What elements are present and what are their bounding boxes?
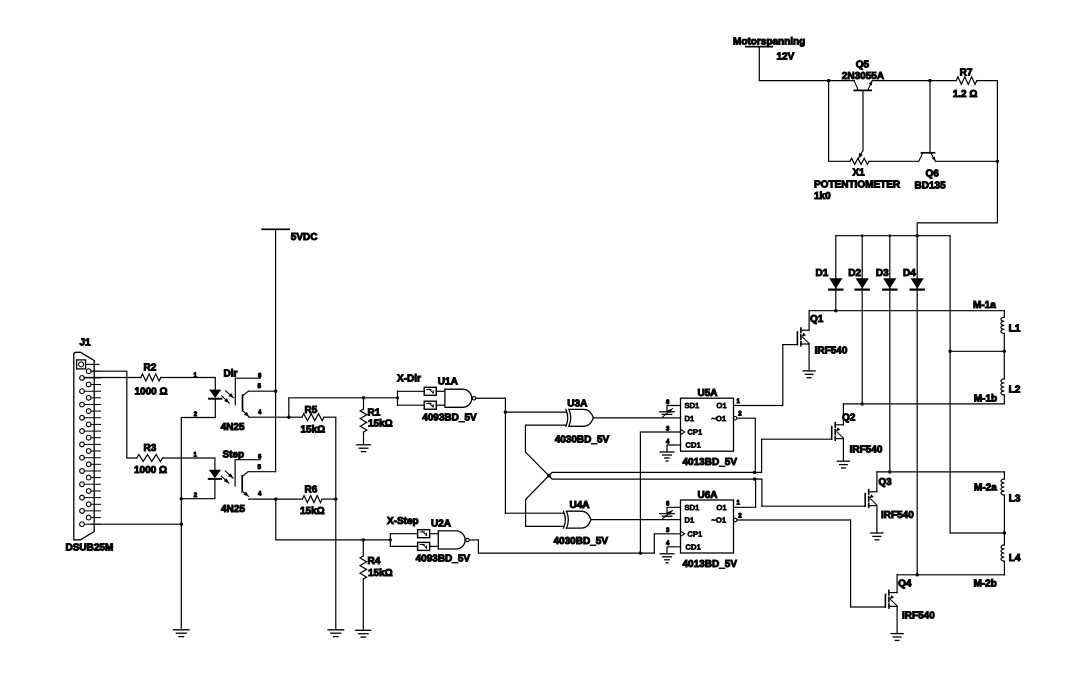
svg-text:1000 Ω: 1000 Ω [135,387,168,398]
svg-text:BD135: BD135 [915,180,947,191]
U3A back arc inner [569,409,571,426]
wire clock to U6A CP1 [654,534,680,553]
U4A back arc outer [564,511,566,528]
Step opto LED cathode lead [181,479,215,499]
connector J1 pin circles and stubs [80,369,101,527]
wire L3 lead [1003,472,1005,479]
junction D2 / M-1b [861,402,864,405]
svg-text:4: 4 [666,541,670,547]
transistor Q3 (IRF540 N-MOSFET) [865,472,877,533]
svg-text:6: 6 [258,373,262,379]
wire J1 pin2 to R3 (down) [91,371,137,458]
junction feedback cross [547,474,551,478]
wire J1 pin3 to R2 [84,377,141,379]
transistor Q6 (NPN) [922,152,935,154]
junction D3 / M-2a [888,470,891,473]
svg-text:Q6: Q6 [926,169,940,180]
wire Step collector to 5VDC rail end [248,471,276,473]
junction bus feed [916,234,919,237]
wire J1 bottom pin to ground rail [91,523,181,525]
junction D4 / M-2b [916,573,919,576]
Dir opto LED [209,390,221,398]
svg-text:Q3: Q3 [878,477,892,488]
resistor R3 [137,455,163,462]
U5A clock triangle [681,429,685,435]
svg-text:D1: D1 [816,268,829,279]
svg-text:4: 4 [258,410,262,416]
svg-text:CP1: CP1 [688,529,703,538]
Step opto arrow 2 [221,476,229,483]
svg-text:POTENTIOMETER: POTENTIOMETER [814,180,901,191]
svg-text:5: 5 [258,465,262,471]
wire diode bus [836,235,950,237]
ground (R5/R6 rail) [328,629,344,631]
U1A input fork [397,391,399,405]
feedback rail upper [549,472,755,475]
svg-text:Q2: Q2 [842,413,856,424]
U1A output bubble [472,397,475,400]
U5A SD1 lead [667,406,681,412]
U3A XOR body [569,409,593,426]
svg-text:IRF540: IRF540 [815,346,848,357]
svg-text:Q4: Q4 [898,579,912,590]
X1 wiper arrow [859,151,863,159]
connector J1 pin 1 square [77,360,86,369]
wire U3A lower input [525,425,566,476]
svg-text:4N25: 4N25 [221,422,245,433]
junction lower rail [753,477,756,480]
svg-text:4: 4 [258,492,262,498]
junction clock line [639,551,642,554]
resistor R7 [956,77,977,85]
U6A pin labels [685,503,727,552]
wire D4 branch [916,236,918,575]
svg-text:SD1: SD1 [685,401,700,410]
svg-text:~O1: ~O1 [712,414,727,423]
wire M-2a [877,471,1005,473]
wire rail jog down to Q3 gate [755,479,762,506]
wire X-Step drop [276,499,391,540]
wire L3-L4 link [1003,495,1005,545]
wire U5A O1 to Q1 gate [734,345,783,406]
svg-text:Step: Step [223,449,245,460]
U4A XOR body [567,511,591,528]
flip-flop U5A (4013BD) box [681,398,734,451]
junction L1/L2 tap [1003,350,1006,353]
svg-text:2: 2 [738,513,742,519]
junction upper rail [753,471,756,474]
wire clock to U5A CP1 [640,432,680,553]
wire U1A output [476,397,506,399]
U1A schmitt input box 1 [424,387,436,395]
wire right rail down [917,81,997,236]
svg-text:~O1: ~O1 [712,516,727,525]
resistor R4 [362,540,364,556]
U3A back arc outer [566,409,568,426]
svg-text:CD1: CD1 [686,542,701,551]
ground at Q1 source [803,370,815,372]
power Motorspanning bar [746,46,772,48]
svg-text:X-Dir: X-Dir [397,373,421,384]
svg-text:DSUB25M: DSUB25M [66,543,114,554]
svg-text:Q1: Q1 [810,314,824,325]
svg-text:D1: D1 [685,414,695,423]
svg-text:M-1a: M-1a [973,300,996,311]
svg-text:D1: D1 [685,516,695,525]
resistor R6 [302,496,322,503]
svg-text:R6: R6 [305,485,318,496]
Dir opto LED anode lead [214,378,216,390]
wire rail jog up to Q2 gate [755,439,762,472]
svg-text:4013BD_5V: 4013BD_5V [683,457,738,468]
svg-text:IRF540: IRF540 [850,445,883,456]
U2A schmitt input box 2 [418,542,430,550]
junction X-Dir to U3A [504,410,507,413]
wire L4 lead [1003,561,1005,575]
svg-text:X1: X1 [853,168,866,179]
transistor Q2 gate wire [762,438,832,440]
wire Q5 emitter to Q6 base node [872,80,930,82]
Dir opto base lead (pin6) [235,378,260,405]
U5A pin labels [685,401,727,450]
wire R7 to right rail [977,80,998,82]
transistor Q2 (IRF540 N-MOSFET) [832,404,844,461]
diode D2 [856,278,869,289]
diode D4 [911,278,924,289]
U2A input fork [389,534,391,547]
U6A notQ bubble [734,518,737,521]
junction bus D2 [861,234,864,237]
wire emitter to X-Dir line [289,398,398,417]
ground at Q4 source [891,633,903,635]
wire D3 branch [889,236,891,472]
svg-text:CD1: CD1 [686,441,701,450]
wire L1-L2 link [1003,333,1005,379]
U5A notQ bubble [734,417,737,420]
svg-text:L4: L4 [1009,553,1021,564]
ground (J1 return) [174,629,190,631]
wire D1 branch [835,236,837,311]
svg-text:J1: J1 [80,338,92,349]
U6A CD1 lead [667,547,681,554]
ground at Q3 source [871,532,883,534]
svg-text:15kΩ: 15kΩ [368,419,393,430]
ground (U5A SD1) [660,411,674,413]
U2A output bubble [466,538,469,541]
U2A NAND body [438,531,465,549]
svg-text:R3: R3 [144,443,157,454]
diode D3 [883,278,896,289]
svg-text:4030BD_5V: 4030BD_5V [555,434,610,445]
junction Q6 base [928,79,931,82]
svg-text:D2: D2 [848,268,861,279]
svg-text:O1: O1 [717,503,727,512]
junction Step emitter / X-Step [274,497,277,500]
svg-text:12V: 12V [777,52,795,63]
wire supply down [759,47,854,81]
transistor Q1 (IRF540 N-MOSFET) [797,311,809,371]
wire U6A ~O1 to Q4 gate [737,520,851,607]
svg-text:Q5: Q5 [856,60,870,71]
ground (U5A CD1) [660,451,674,453]
wire M-2b [897,574,1004,576]
svg-text:X-Step: X-Step [387,516,419,527]
inductor L1 [1001,317,1004,333]
wire M-1b [843,403,1004,405]
svg-text:6: 6 [258,455,262,461]
U5A CD1 lead [667,445,681,452]
Step opto LED anode lead [214,458,216,470]
transistor Q4 gate wire [851,606,886,608]
resistor R2 [141,374,161,381]
Step opto base lead (pin6) [235,460,260,486]
svg-text:15kΩ: 15kΩ [301,425,326,436]
svg-text:L3: L3 [1009,494,1021,505]
svg-text:D3: D3 [876,268,889,279]
transistor Q3 gate wire [762,505,865,507]
wire X-Dir down [504,398,506,513]
svg-text:4030BD_5V: 4030BD_5V [554,536,609,547]
svg-text:U4A: U4A [570,500,590,511]
resistor R1 [363,398,365,409]
U6A clock triangle [681,531,685,537]
resistor R5 [302,414,324,421]
svg-text:M-1b: M-1b [974,394,997,405]
Step opto arrow 1 [225,471,233,478]
flip-flop U6A (4013BD) box [681,500,734,553]
transistor Q4 (IRF540 N-MOSFET) [885,575,897,634]
svg-text:U3A: U3A [567,398,587,409]
svg-text:R4: R4 [368,556,381,567]
svg-text:4013BD_5V: 4013BD_5V [683,559,738,570]
svg-text:R7: R7 [960,68,973,79]
ground at Q2 source [837,460,849,462]
wire D2 branch [861,236,863,404]
wire Step emitter to R6 [249,498,303,500]
feedback rail lower [549,476,755,479]
svg-text:U6A: U6A [698,490,718,501]
svg-text:1.2 Ω: 1.2 Ω [953,89,978,100]
junction winding-1 tap branch [948,350,951,353]
inductor L3 [1001,479,1004,495]
U2A schmitt input box 1 [418,530,430,538]
transistor Q5 (NPN) [854,89,871,91]
U6A SD1 lead [667,507,681,513]
wire U6A O1 up to rail [734,479,756,507]
Step opto phototransistor [241,476,243,492]
Dir opto arrow 1 [226,391,234,398]
wire M-1a [809,310,1004,312]
svg-text:IRF540: IRF540 [902,611,935,622]
potentiometer X1 [850,158,869,164]
wire U3A output to U5A D1 [594,417,681,419]
junction J1 ground pin [180,523,183,526]
wire Dir emitter [249,416,289,418]
ground (U6A SD1) [660,513,674,515]
junction Dir emitter / R5 [287,416,290,419]
wire U5A ~O1 down to rail [737,418,755,472]
svg-text:M-2b: M-2b [974,579,997,590]
svg-text:5VDC: 5VDC [291,232,318,243]
Step opto LED [209,470,221,478]
junction L3/L4 tap [1003,531,1006,534]
svg-text:4093BD_5V: 4093BD_5V [416,553,471,564]
wire Dir collector to 5VDC rail [248,390,275,392]
Dir opto phototransistor [242,395,244,411]
svg-text:1000 Ω: 1000 Ω [134,465,167,476]
svg-text:CP1: CP1 [688,428,703,437]
svg-text:5: 5 [258,384,262,390]
svg-text:O1: O1 [717,401,727,410]
svg-text:U2A: U2A [431,519,451,530]
wire bus to winding-1 tap [950,236,1004,533]
wire Q6 emitter to rail [936,160,998,162]
junction X-Step / R4 [362,538,365,541]
junction X1 branch [827,79,830,82]
wire L2 lead [1003,395,1005,404]
junction bus D3 [888,234,891,237]
svg-text:15kΩ: 15kΩ [368,568,393,579]
wire X-Dir to U4A input [505,512,563,514]
junction Q6 emitter node [996,160,999,163]
wire U2A output [469,540,654,553]
svg-text:3: 3 [666,528,670,534]
wire X-Dir to U3A input [505,411,566,413]
junction D1 / M-1a [834,309,837,312]
ground (R4) [356,629,371,631]
U1A schmitt input box 2 [424,401,436,409]
wire R2 to Dir opto pin1 [161,377,216,379]
Dir opto LED cathode lead [214,399,216,418]
wire 5VDC rail down [275,229,277,471]
connector J1 body (DSUB25M) [74,352,94,540]
wire U4A output to U6A D1 [591,519,680,521]
wire L1 lead [1003,311,1005,318]
svg-text:15kΩ: 15kΩ [300,506,325,517]
svg-text:1k0: 1k0 [814,191,831,202]
svg-text:R2: R2 [144,363,157,374]
svg-text:L1: L1 [1009,324,1021,335]
svg-text:4093BD_5V: 4093BD_5V [422,412,477,423]
transistor Q1 gate wire [783,344,798,346]
junction X-Dir / R1 [362,396,365,399]
svg-text:1: 1 [737,399,741,405]
svg-text:R1: R1 [368,408,381,419]
junction R6 / ground rail [334,497,337,500]
svg-text:SD1: SD1 [685,503,700,512]
inductor L2 [1001,379,1004,395]
svg-text:M-2a: M-2a [974,483,997,494]
svg-text:U5A: U5A [698,388,718,399]
wire R3 to Step opto pin1 [163,457,215,459]
wire opto cathode ground rail [181,418,215,629]
svg-text:L2: L2 [1009,385,1021,396]
svg-text:U1A: U1A [438,376,458,387]
wire R5/R6 ground rail [335,417,337,630]
svg-text:IRF540: IRF540 [881,510,914,521]
U1A NAND body [445,389,472,407]
svg-text:2: 2 [738,411,742,417]
svg-text:4N25: 4N25 [221,504,245,515]
svg-text:1: 1 [737,501,741,507]
ground (U6A CD1) [660,553,674,555]
inductor L4 [1001,545,1004,561]
wire winding-1 tap [950,350,1004,352]
wire U4A lower input [526,476,564,527]
diode D1 [829,278,842,289]
junction 5VDC rail / Dir collector [274,390,277,393]
Dir opto arrow 2 [222,396,230,403]
U4A back arc inner [567,511,569,528]
svg-text:R5: R5 [305,405,318,416]
wire X1 to Q6 [869,160,919,162]
wire X1 left [829,81,850,162]
wire node to R7 [930,80,956,82]
junction Step pin2 [180,497,183,500]
power 5VDC bar [262,228,289,230]
ground (R1) [357,444,371,446]
svg-text:D4: D4 [903,268,916,279]
